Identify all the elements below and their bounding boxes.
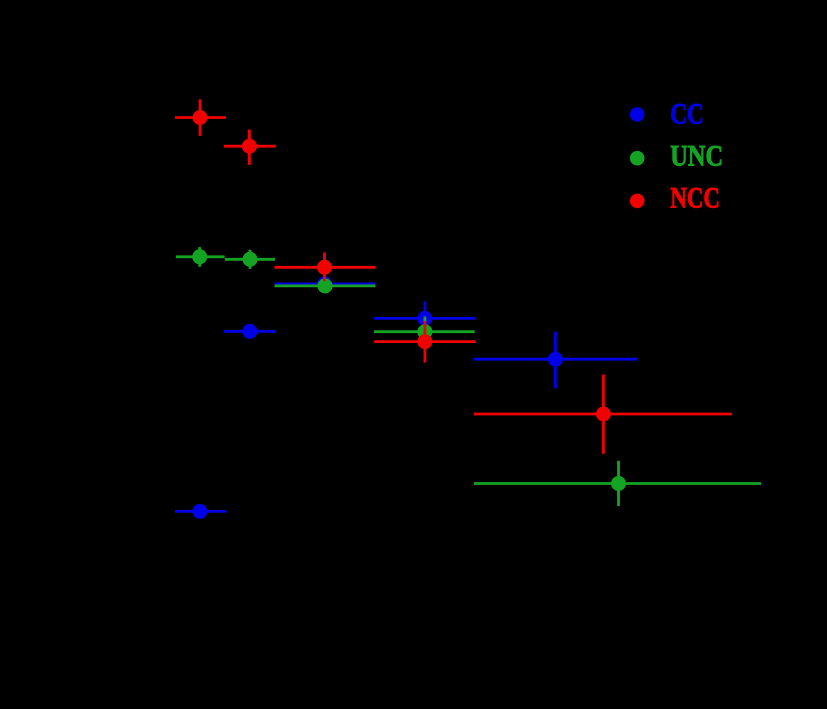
legend marker UNC [630, 151, 645, 166]
NCC point 5 x-error bar [474, 413, 732, 416]
NCC point 1 y-error bar [199, 99, 202, 136]
UNC point 4 marker [417, 324, 432, 339]
svg-text:CC: CC [670, 97, 704, 130]
NCC point 5 y-error bar [602, 375, 605, 454]
CC point 2 marker [242, 324, 257, 339]
NCC point 1 x-error bar [175, 116, 226, 119]
series NCC (red), drawn last [175, 99, 732, 453]
NCC point 4 y-error bar [423, 321, 426, 362]
UNC point 4 x-error bar [374, 330, 475, 333]
CC point 4 marker [417, 311, 432, 326]
CC point 1 marker [192, 504, 207, 519]
UNC point 5 marker [611, 476, 626, 491]
NCC point 4 marker [417, 334, 432, 349]
series CC (blue), drawn first [175, 276, 637, 519]
series UNC (green), drawn second [176, 247, 761, 506]
NCC point 3 y-error bar [323, 253, 326, 282]
UNC point 2 x-error bar [225, 258, 275, 261]
legend marker CC [630, 107, 645, 122]
UNC point 1 x-error bar [176, 255, 225, 258]
CC point 5 marker [548, 352, 563, 367]
UNC point 3 x-error bar [275, 284, 376, 287]
svg-text:UNC: UNC [670, 139, 723, 172]
CC point 5 y-error bar [554, 332, 557, 389]
CC point 4 x-error bar [374, 317, 476, 320]
CC point 4 y-error bar [423, 301, 426, 335]
CC point 5 x-error bar [474, 358, 637, 361]
UNC point 3 y-error bar [324, 279, 327, 293]
UNC point 5 x-error bar [474, 482, 761, 485]
CC point 3 marker [317, 276, 332, 291]
NCC point 3 marker [317, 260, 332, 275]
CC point 2 x-error bar [224, 330, 276, 333]
UNC point 2 y-error bar [249, 250, 252, 269]
UNC point 4 y-error bar [423, 317, 426, 348]
UNC point 5 y-error bar [617, 461, 620, 506]
UNC point 3 marker [318, 278, 333, 293]
NCC point 3 x-error bar [274, 266, 375, 269]
UNC point 1 y-error bar [198, 247, 201, 267]
NCC point 2 x-error bar [224, 145, 276, 148]
CC point 3 x-error bar [275, 282, 376, 285]
legend marker NCC [630, 194, 645, 209]
NCC point 1 marker [193, 110, 208, 125]
svg-text:NCC: NCC [670, 181, 720, 214]
NCC point 2 y-error bar [248, 130, 251, 165]
NCC point 4 x-error bar [374, 340, 476, 343]
NCC point 2 marker [242, 139, 257, 154]
CC point 1 x-error bar [175, 510, 227, 513]
UNC point 1 marker [192, 249, 207, 264]
UNC point 2 marker [243, 252, 258, 267]
NCC point 5 marker [596, 407, 611, 422]
